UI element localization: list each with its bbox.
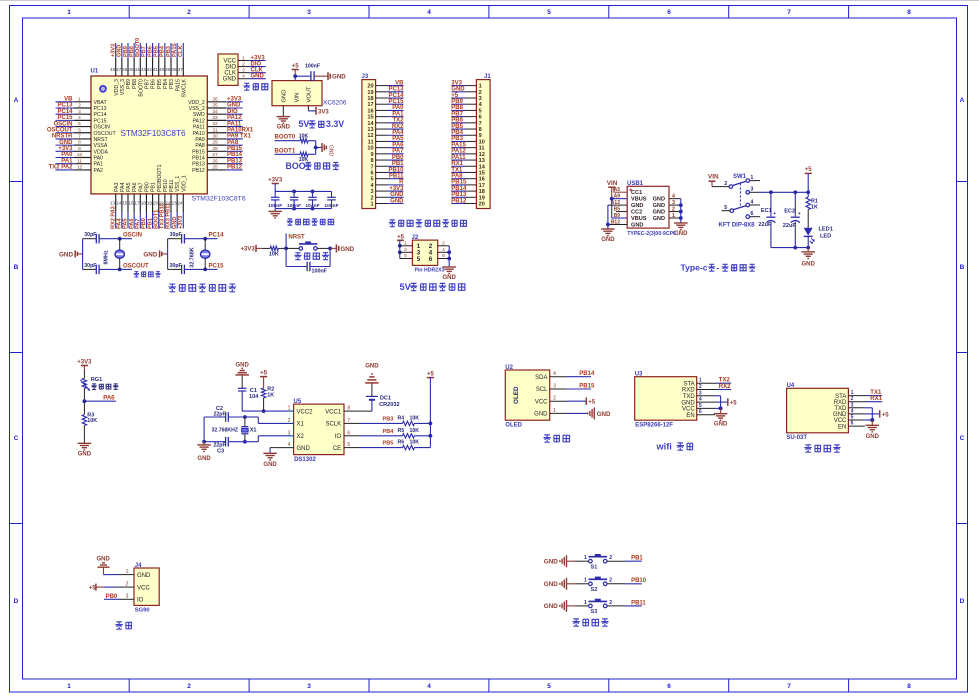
svg-text:42: 42	[147, 67, 153, 72]
node crystal bottom junction	[203, 268, 207, 272]
svg-text:PB8: PB8	[132, 79, 138, 89]
J3 pin 9 wire + net PA7	[376, 153, 387, 155]
wire GND pin4	[270, 447, 294, 449]
caption du li an jian	[572, 619, 579, 626]
svg-text:STM32F103C8T6: STM32F103C8T6	[120, 129, 186, 138]
node pullup junctions	[429, 422, 433, 426]
svg-text:A: A	[960, 97, 965, 104]
J3 pin 2 wire + net GND	[376, 196, 387, 198]
svg-text:J1: J1	[484, 74, 491, 80]
U1 top pin 44 (BOOT0) wire + net BOOT0	[139, 43, 141, 58]
wire crystal rail	[167, 239, 169, 270]
svg-text:+3V3: +3V3	[389, 186, 404, 192]
node left rail junction	[202, 440, 206, 444]
svg-text:5: 5	[78, 121, 81, 127]
J3 pin 16 wire + net PA0	[376, 109, 387, 111]
U1 top pin 48 (VDD_3) wire + net +3V3	[115, 43, 117, 58]
J2 right pin 2 wire	[438, 245, 450, 247]
svg-text:2: 2	[442, 241, 445, 247]
svg-text:BOOT1: BOOT1	[275, 148, 296, 154]
wire node to R3	[83, 401, 85, 414]
ground filter caps	[274, 209, 276, 211]
node U3 junction	[719, 406, 723, 410]
svg-text:GND: GND	[601, 237, 615, 243]
svg-text:X1: X1	[250, 428, 257, 434]
USB1 pin1 dot	[630, 189, 632, 191]
J3 pin 11 wire + net PA5	[376, 140, 387, 142]
svg-text:1: 1	[242, 55, 245, 61]
svg-text:+: +	[798, 211, 801, 217]
svg-text:19: 19	[479, 195, 485, 201]
svg-text:DS1302: DS1302	[294, 457, 316, 463]
svg-text:GND: GND	[172, 217, 178, 229]
node VBUS junction	[610, 197, 614, 201]
wire to net OSCOUT	[120, 268, 132, 270]
svg-text:VCC: VCC	[535, 399, 548, 405]
svg-text:GND: GND	[143, 252, 157, 259]
USB1 right pin 1 GND wire	[669, 217, 681, 219]
svg-text:3: 3	[404, 247, 407, 253]
svg-text:PA5: PA5	[123, 219, 129, 229]
node GND left junction	[606, 223, 610, 227]
svg-text:OLED: OLED	[513, 386, 520, 404]
svg-text:PA12: PA12	[451, 149, 466, 155]
battery DC1 CR2032	[371, 400, 373, 411]
svg-text:GND: GND	[544, 581, 558, 588]
wire XC6206 GND pin	[282, 106, 284, 117]
svg-text:RX3 PB11: RX3 PB11	[166, 203, 172, 229]
svg-text:5: 5	[724, 205, 727, 211]
wire to NRST junction	[278, 247, 286, 249]
svg-text:GND: GND	[59, 140, 73, 146]
ground below pin4	[263, 452, 277, 454]
svg-text:GND: GND	[332, 74, 346, 81]
stub EN	[697, 414, 715, 416]
svg-text:PA11: PA11	[451, 155, 466, 161]
U1 bottom pin 19 (PB1) wire + net PB1	[152, 194, 154, 212]
node right junction	[328, 247, 332, 251]
display U2 OLED body	[505, 370, 549, 420]
svg-text:21: 21	[159, 201, 165, 206]
wire bottom bus	[275, 208, 331, 210]
svg-text:OSCOUT: OSCOUT	[94, 131, 117, 137]
svg-text:TX2 PA2: TX2 PA2	[49, 165, 74, 171]
svg-text:1: 1	[78, 96, 81, 102]
wire top bus	[275, 190, 331, 192]
svg-text:SDA: SDA	[535, 375, 547, 381]
wire VCC row	[697, 407, 715, 409]
svg-text:30pF: 30pF	[84, 232, 96, 238]
svg-text:100nF: 100nF	[312, 268, 328, 274]
svg-text:24: 24	[178, 201, 184, 206]
svg-text:2: 2	[187, 9, 191, 16]
svg-text:7: 7	[479, 121, 482, 127]
svg-text:R: R	[399, 180, 404, 186]
svg-text:PB14: PB14	[192, 156, 205, 162]
crystal 8MHz	[119, 239, 121, 251]
svg-text:18: 18	[479, 189, 485, 195]
ground OLED	[593, 407, 595, 419]
wire GND port	[550, 412, 567, 414]
svg-text:C3: C3	[217, 448, 224, 454]
svg-text:GND: GND	[97, 557, 111, 563]
J1 pin 14 wire + net RX1	[466, 165, 476, 167]
svg-text:PB11: PB11	[631, 600, 646, 606]
svg-text:VCC: VCC	[137, 585, 150, 591]
svg-text:BOOT0: BOOT0	[138, 79, 144, 97]
svg-text:SCL: SCL	[536, 387, 548, 393]
ground above C1	[241, 367, 243, 369]
wire button S3 to net PB11	[607, 605, 625, 607]
svg-text:6: 6	[78, 127, 81, 133]
svg-text:3: 3	[307, 9, 311, 16]
svg-text:28: 28	[212, 146, 218, 152]
svg-text:OSCIN: OSCIN	[53, 121, 72, 127]
svg-text:GND: GND	[328, 145, 334, 157]
svg-text:9: 9	[78, 146, 81, 152]
svg-text:SW1: SW1	[733, 174, 747, 180]
svg-text:S3: S3	[591, 609, 598, 615]
svg-text:43: 43	[141, 67, 147, 72]
op-amp U1 body STM32F103C8T6	[91, 76, 207, 194]
svg-text:10K: 10K	[87, 418, 97, 424]
svg-text:VDDA: VDDA	[94, 149, 109, 155]
svg-text:PA10RX1: PA10RX1	[227, 127, 254, 133]
svg-text:VCC2: VCC2	[297, 409, 314, 415]
svg-text:1: 1	[479, 84, 482, 90]
resistor R3 10K	[82, 415, 86, 426]
wire BOOT0 row	[275, 140, 301, 142]
net label PA6 wire	[84, 400, 116, 402]
U1 top pin 41 (PB5) wire + net PB5	[158, 43, 160, 58]
capacitor C1 104	[241, 391, 243, 411]
svg-text:PB4: PB4	[383, 429, 395, 435]
svg-text:U1: U1	[91, 69, 99, 75]
svg-text:PB8: PB8	[451, 105, 463, 111]
svg-text:15: 15	[479, 170, 485, 176]
svg-text:VIN: VIN	[607, 180, 618, 187]
U1 right pin 27 (PB14) wire + net PB14	[207, 157, 226, 159]
U1 bottom pin 22 (PB11) wire + net RX3 PB11	[170, 194, 172, 212]
svg-text:PB0: PB0	[145, 182, 151, 192]
wire VCC1 pin8	[344, 410, 372, 412]
svg-text:GND: GND	[674, 231, 688, 237]
svg-text:GND: GND	[802, 261, 816, 267]
svg-text:PB3: PB3	[166, 46, 172, 57]
net label NRST	[285, 234, 287, 249]
svg-text:23: 23	[171, 201, 177, 206]
svg-text:8: 8	[907, 683, 911, 690]
svg-text:4: 4	[750, 199, 753, 205]
svg-text:PC15: PC15	[388, 99, 404, 105]
svg-text:GND: GND	[866, 434, 880, 440]
svg-text:PC15: PC15	[94, 118, 107, 124]
ground U3	[720, 408, 722, 413]
wire GND vertical left	[607, 205, 609, 229]
svg-text:PB7: PB7	[451, 111, 463, 117]
J1 pin 15 wire + net TX1	[466, 171, 476, 173]
capacitor C3 100nF	[293, 191, 295, 197]
svg-text:VCC: VCC	[834, 418, 847, 424]
svg-text:LED1: LED1	[819, 227, 833, 233]
svg-text:100nF: 100nF	[305, 64, 320, 70]
svg-text:GND: GND	[443, 275, 457, 281]
svg-text:PC13: PC13	[388, 87, 404, 93]
svg-text:OSCOUT: OSCOUT	[47, 127, 73, 133]
U1 left pin 11 (PA1) wire + net PA1	[56, 163, 75, 165]
SW1 gang dashed link	[739, 183, 741, 207]
svg-text:RX1: RX1	[451, 161, 463, 167]
svg-text:7: 7	[370, 164, 373, 170]
svg-text:PB7: PB7	[145, 79, 151, 89]
stub EN U4	[848, 425, 865, 427]
svg-text:32: 32	[212, 121, 218, 127]
SW1 stubs	[750, 180, 761, 182]
svg-text:PB13: PB13	[192, 162, 205, 168]
svg-text:PA3: PA3	[114, 182, 120, 192]
J1 pin 17 wire + net PB15	[466, 184, 476, 186]
J3 pin 4 wire + net R	[376, 184, 387, 186]
node crystal bottom junction	[118, 268, 122, 272]
wire GND A12	[608, 204, 627, 206]
svg-text:22uF: 22uF	[783, 223, 797, 229]
svg-text:B: B	[960, 264, 965, 271]
svg-text:5: 5	[417, 256, 421, 263]
svg-text:STA: STA	[835, 394, 846, 400]
USB1 right pin 3 GND wire	[669, 204, 681, 206]
svg-text:PA15: PA15	[175, 79, 181, 91]
svg-text:PB9: PB9	[451, 99, 463, 105]
node VCC2 junction	[262, 409, 266, 413]
U1 left pin 6 (OSCOUT) wire + net OSCOUT	[56, 132, 75, 134]
wire RG1 to node	[83, 389, 85, 402]
svg-text:VSSA: VSSA	[94, 143, 108, 149]
svg-text:PB10: PB10	[388, 167, 404, 173]
svg-text:VBAT: VBAT	[94, 100, 108, 106]
node J2 left junctions	[398, 244, 402, 248]
U1 right pin 34 (SWD) wire + net DIO	[207, 113, 226, 115]
capacitor 30pF top	[83, 238, 97, 240]
U1 right pin 35 (VSS_2) wire + net GND	[207, 107, 226, 109]
U1 pin1 marker	[100, 86, 106, 92]
download port pin 1 VCC wire + net +3V3	[238, 60, 249, 62]
svg-text:PB1: PB1	[151, 182, 157, 192]
U1 top pin 38 (PA15) wire + net PA15	[176, 43, 178, 58]
J1 pin 20 wire + net PB12	[466, 202, 476, 204]
node NRST junction	[284, 247, 288, 251]
svg-text:PB11: PB11	[169, 179, 175, 191]
svg-text:PA11: PA11	[193, 125, 205, 131]
push button S1	[589, 559, 593, 563]
J3 pin 12 wire + net PA4	[376, 134, 387, 136]
wire TXD bend	[697, 395, 715, 397]
wire left crystal rail	[203, 417, 205, 442]
svg-text:2: 2	[187, 683, 191, 690]
node U4 junction	[870, 418, 874, 422]
svg-text:BOOT0: BOOT0	[275, 135, 296, 141]
svg-text:PB9: PB9	[123, 46, 129, 57]
capacitor 30pF bottom	[168, 268, 182, 270]
U1 left pin 8 (VSSA) wire + net GND	[56, 144, 75, 146]
svg-text:1: 1	[584, 600, 587, 606]
svg-text:PA6: PA6	[103, 396, 115, 402]
servo J4 body	[134, 568, 159, 605]
svg-text:TX3 PB10: TX3 PB10	[160, 203, 166, 229]
svg-text:X1: X1	[297, 422, 305, 428]
svg-text:33: 33	[212, 115, 218, 121]
crystal 32.768K	[204, 239, 206, 251]
svg-text:GND: GND	[833, 412, 847, 418]
svg-text:RXD: RXD	[682, 388, 695, 394]
svg-text:15: 15	[367, 115, 373, 121]
svg-text:PB4: PB4	[163, 79, 169, 89]
svg-text:PB3: PB3	[169, 79, 175, 89]
svg-text:4: 4	[427, 9, 431, 16]
ground below XC6206	[277, 116, 291, 118]
svg-text:3V3: 3V3	[451, 80, 462, 86]
svg-text:3: 3	[370, 189, 373, 195]
svg-text:GND: GND	[631, 222, 643, 228]
J3 pin 1 wire + net GND	[376, 202, 387, 204]
svg-text:10K: 10K	[410, 415, 420, 421]
caption duo ji	[115, 622, 122, 629]
svg-text:13: 13	[479, 158, 485, 164]
svg-text:2: 2	[724, 181, 727, 187]
svg-text:45: 45	[128, 67, 134, 72]
J3 pin 8 wire + net PB0	[376, 159, 387, 161]
caption dan pian ji yin jiao wai yin pai zhen	[389, 220, 396, 227]
resistor R2 1K	[261, 388, 265, 398]
svg-text:C: C	[14, 435, 19, 442]
svg-text:10: 10	[77, 152, 83, 158]
svg-text:PB13: PB13	[227, 158, 243, 164]
svg-text:GND: GND	[277, 125, 291, 131]
svg-text:2: 2	[370, 195, 373, 201]
svg-text:GND: GND	[117, 45, 123, 57]
connector J1 body	[476, 80, 490, 209]
J3 pin 17 wire + net PC15	[376, 103, 387, 105]
J1 pin 10 wire + net PB3	[466, 140, 476, 142]
svg-text:5V: 5V	[400, 282, 412, 292]
svg-text:PB12: PB12	[451, 198, 467, 204]
svg-text:2: 2	[479, 90, 482, 96]
svg-text:PA5: PA5	[126, 182, 132, 192]
svg-text:GND: GND	[681, 400, 695, 406]
svg-text:+5: +5	[427, 371, 435, 377]
wire LED to bottom rail	[807, 236, 809, 247]
svg-text:GND: GND	[227, 103, 241, 109]
wire BOOT1 row	[275, 153, 301, 155]
wire X1 pin2	[258, 422, 293, 424]
U1 right pin 28 (PB15) wire + net PB15	[207, 150, 226, 152]
U1 bottom pin 24 (VDD_1) wire + net +3V3	[182, 194, 184, 212]
svg-text:LED: LED	[820, 233, 831, 239]
J1 pin 6 wire + net PB7	[466, 116, 476, 118]
svg-text:4: 4	[427, 683, 431, 690]
U1 bottom pin 21 (PB10) wire + net TX3 PB10	[164, 194, 166, 212]
U1 top pin 40 (PB4) wire + net PB4	[164, 43, 166, 58]
svg-text:BOOT0: BOOT0	[135, 38, 141, 57]
wire GND row to +5 U4	[848, 413, 864, 415]
wire to net PC15	[205, 268, 217, 270]
wire VBUS vertical to B9	[611, 199, 613, 218]
wire VBUS A9	[612, 198, 628, 200]
svg-text:+3V3: +3V3	[58, 146, 73, 152]
svg-text:PA7: PA7	[135, 219, 141, 229]
svg-text:PA4: PA4	[392, 130, 404, 136]
svg-text:10: 10	[479, 139, 485, 145]
U1 left pin 10 (PA0) wire + net PA0	[56, 157, 75, 159]
capacitor 100nF reset loop	[285, 248, 287, 266]
svg-text:OLED: OLED	[505, 423, 522, 429]
svg-text:5: 5	[547, 9, 551, 16]
svg-text:22pF: 22pF	[214, 411, 226, 417]
U1 left pin 12 (PA2) wire + net TX2 PA2	[56, 169, 75, 171]
svg-text:VDD_1: VDD_1	[181, 175, 187, 192]
capacitor C4 104nF	[312, 191, 314, 197]
wire SDA to PB14	[550, 376, 567, 378]
svg-text:4: 4	[78, 115, 81, 121]
svg-text:STM32F103C8T6: STM32F103C8T6	[192, 195, 246, 202]
wire VIN to SW1 pin2	[712, 186, 729, 188]
J2 left pin 3 wire	[400, 251, 413, 253]
svg-text:EC1: EC1	[761, 208, 772, 214]
ground USB1 left	[601, 228, 615, 230]
svg-text:1K: 1K	[811, 204, 818, 210]
svg-text:TX2: TX2	[392, 118, 404, 124]
svg-text:S2: S2	[591, 587, 598, 593]
J1 pin 5 wire + net PB8	[466, 109, 476, 111]
J1 pin 1 wire + net 3V3	[466, 85, 476, 87]
svg-text:18: 18	[367, 96, 373, 102]
svg-text:PA0: PA0	[94, 156, 104, 162]
caption xin pian lv bo dian rong	[287, 219, 293, 225]
svg-text:PB3: PB3	[451, 136, 463, 142]
svg-text:22uF: 22uF	[758, 222, 772, 228]
svg-text:GND: GND	[451, 87, 465, 93]
svg-text:PC15: PC15	[57, 115, 73, 121]
svg-text:GND: GND	[714, 422, 728, 428]
svg-text:PB14: PB14	[579, 371, 595, 377]
svg-text:PA9 TX1: PA9 TX1	[227, 134, 252, 140]
svg-text:GND: GND	[597, 411, 611, 418]
capacitor EC2 22uF	[794, 192, 796, 216]
svg-text:IO: IO	[335, 434, 342, 440]
svg-text:47: 47	[116, 67, 122, 72]
svg-text:PA12: PA12	[227, 115, 242, 121]
svg-text:PB2BOOT1: PB2BOOT1	[157, 164, 163, 192]
svg-text:PB10: PB10	[631, 578, 647, 584]
svg-text:+5: +5	[292, 63, 300, 69]
svg-text:PB4: PB4	[160, 45, 166, 57]
J1 pin 3 wire + net +5	[466, 97, 476, 99]
resistor R6 10K	[403, 445, 415, 449]
svg-text:J3: J3	[362, 74, 369, 80]
svg-text:14: 14	[367, 121, 374, 127]
wire VCC row U4	[848, 419, 864, 421]
wire to gnd	[316, 147, 322, 149]
svg-text:PB11: PB11	[389, 173, 404, 179]
svg-text:VBUS: VBUS	[631, 197, 647, 203]
svg-text:11: 11	[77, 158, 82, 164]
svg-text:PA0: PA0	[392, 105, 404, 111]
svg-text:CE: CE	[333, 446, 341, 452]
svg-text:PB9: PB9	[126, 79, 132, 89]
USB1 right pin 2 GND wire	[669, 211, 681, 213]
svg-text:8MHz: 8MHz	[104, 250, 110, 264]
svg-text:6: 6	[370, 170, 373, 176]
U1 right pin 36 (VDD_2) wire + net +3V3	[207, 101, 226, 103]
